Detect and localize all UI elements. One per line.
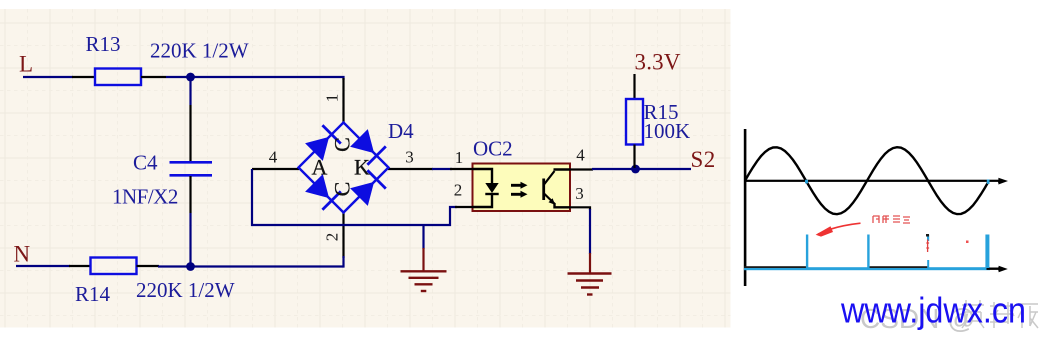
optocoupler OC2 designator [473, 137, 513, 161]
capacitor C4 pin top [189, 105, 191, 161]
svg-text:R14: R14 [75, 282, 111, 306]
wire OC2 pin4 to S2 [592, 168, 691, 170]
svg-text:3: 3 [405, 148, 414, 167]
svg-text:R13: R13 [86, 32, 121, 56]
resistor R13 designator [86, 32, 121, 56]
svg-text:K: K [354, 155, 370, 180]
svg-text:1: 1 [455, 148, 464, 167]
OC2 pin 4 stub [570, 168, 593, 170]
wire R13 to bridge top corner [166, 77, 344, 80]
svg-text:C: C [330, 137, 355, 152]
diode bridge D4 pin 2 number [322, 233, 341, 242]
diode bridge D4 pin 2 (bottom) [342, 212, 344, 258]
diode D4 bottom-right [350, 170, 386, 206]
waveform vertical axis [744, 129, 747, 286]
junction R15 / S2 [631, 165, 640, 174]
optocoupler OC2 body [473, 164, 571, 212]
capacitor C4 designator [133, 151, 158, 175]
diode bridge D4 pin 3 number [405, 148, 414, 167]
pulse 1 [806, 235, 808, 269]
wire bridge pin3 to OC2 pin1 [432, 168, 452, 170]
resistor R15 body [626, 99, 643, 145]
diode bridge D4 designator [388, 119, 414, 143]
svg-text:1: 1 [322, 94, 341, 103]
wire OC2 pin3 down to ground [589, 209, 591, 254]
sine waveform [745, 147, 989, 214]
svg-text:N: N [14, 242, 31, 267]
OC2 pin 1 stub [450, 168, 473, 170]
bridge terminal letter K [354, 155, 370, 180]
resistor R15 value label 100K [644, 119, 691, 143]
power 3.3V label [635, 50, 681, 75]
resistor R13 pin left [72, 76, 95, 78]
bridge terminal letter C bottom [330, 182, 355, 197]
red speck near pulse 3 [926, 240, 929, 253]
OC2 pin 3 stub [570, 207, 590, 210]
svg-text:4: 4 [576, 146, 585, 165]
OC2 internal phototransistor [544, 170, 570, 208]
OC2 pin 2 number [454, 181, 463, 200]
diode bridge D4 pin 4 (left) [252, 168, 299, 170]
svg-text:OC2: OC2 [473, 137, 513, 161]
diode bridge D4 pin 4 number [269, 148, 278, 167]
svg-text:100K: 100K [644, 119, 691, 143]
OC2 pin 4 number [576, 146, 585, 165]
wire C4 bottom to junction [189, 213, 191, 267]
diode D4 top-right [350, 129, 386, 165]
svg-text:A: A [312, 155, 328, 180]
bridge terminal letter A [312, 155, 328, 180]
ground symbol left [401, 225, 447, 291]
OC2 coupling arrows [511, 182, 528, 198]
wire N to R14 [16, 265, 70, 267]
resistor R14 designator [75, 282, 111, 306]
OC2 internal LED [473, 169, 499, 207]
svg-text:2: 2 [322, 233, 341, 242]
wire R14 to bridge pin2 [158, 265, 344, 267]
resistor R13 pin right [141, 76, 166, 78]
pulse baseline cyan [744, 267, 990, 270]
resistor R15 pin bottom [633, 145, 635, 169]
resistor R14 value label 220K 1/2W [136, 278, 235, 302]
svg-text:220K 1/2W: 220K 1/2W [136, 278, 235, 302]
diode D4 top-left [305, 125, 341, 161]
power 3.3V stem [633, 74, 635, 99]
wire junction to C4 top [189, 77, 191, 105]
OC2 pin 1 number [455, 148, 464, 167]
watermark CSDN gray text [860, 300, 1038, 334]
svg-text:1NF/X2: 1NF/X2 [112, 185, 178, 209]
junction top of C4 [186, 73, 195, 82]
capacitor C4 value label 1NF/X2 [112, 185, 178, 209]
resistor R13 value label 220K 1/2W [150, 39, 249, 63]
svg-text:L: L [19, 52, 33, 77]
diode bridge D4 pin 1 number [322, 94, 341, 103]
svg-text:4: 4 [269, 148, 278, 167]
svg-text:2: 2 [454, 181, 463, 200]
svg-text:220K 1/2W: 220K 1/2W [150, 39, 249, 63]
wire bridge pin2 to N wire [342, 256, 344, 268]
cyan dot at first zero crossing [805, 180, 990, 184]
resistor R15 designator [644, 100, 679, 124]
resistor R13 body [95, 69, 141, 86]
svg-text:C: C [330, 182, 355, 197]
diode bridge D4 diamond outline [299, 123, 389, 213]
site url text [840, 290, 1026, 331]
svg-text:3: 3 [575, 184, 584, 203]
capacitor C4 plates [170, 162, 213, 175]
svg-text:D4: D4 [388, 119, 414, 143]
red annotation arrow [816, 223, 861, 236]
svg-text:3.3V: 3.3V [635, 50, 681, 75]
pulse 2 [867, 235, 869, 269]
pulse 3 (partially erased) [926, 234, 929, 268]
red annotation text (blurred glyph shapes) [873, 216, 910, 223]
diode bridge D4 pin 1 (top) [342, 78, 344, 123]
diode bridge D4 pin 3 (right) [388, 168, 433, 170]
pulse axis arrow [987, 266, 1008, 273]
OC2 pin 3 number [575, 184, 584, 203]
svg-text:www.jdwx.cn: www.jdwx.cn [840, 290, 1026, 331]
junction bottom of C4 [186, 262, 195, 271]
red dot speck [966, 241, 969, 244]
bridge terminal letter C top [330, 137, 355, 152]
pulse 4 [985, 235, 989, 269]
OC2 pin 2 stub [455, 206, 473, 208]
pulse baseline black overlay segments [744, 266, 929, 268]
node N net label [14, 242, 31, 267]
resistor R14 pin left [69, 265, 91, 267]
resistor R14 pin right [137, 265, 160, 267]
node L net label [19, 52, 33, 77]
svg-text:C4: C4 [133, 151, 158, 175]
waveform sine horizontal axis [745, 178, 1008, 185]
wire L to R13 [23, 76, 73, 78]
svg-text:S2: S2 [691, 147, 716, 172]
node S2 net label [691, 147, 716, 172]
diode D4 bottom-left [305, 174, 341, 210]
wire bridge pin4 loop to OC2 pin2 [252, 169, 457, 225]
ground symbol right [568, 253, 612, 295]
schematic sheet background [0, 9, 731, 328]
capacitor C4 pin bottom [189, 176, 191, 213]
resistor R14 body [91, 258, 137, 275]
